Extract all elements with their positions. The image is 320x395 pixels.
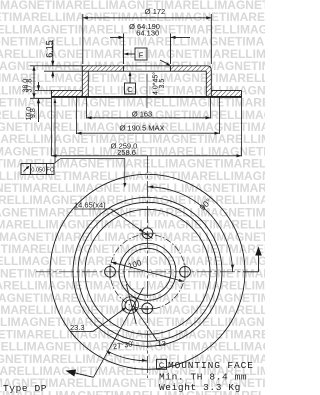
type label [3,383,47,394]
dimension Ø259 text [111,142,138,157]
dimension Ø163 line [87,116,211,119]
dimension Ø259 line [52,154,242,157]
section hat top plate left of bore (hatched) [82,66,123,71]
svg-text:C: C [127,85,133,94]
top view outer circle Ø259 [50,174,245,369]
dimension 100 line [111,262,183,282]
dimension Ø190.5 text [119,123,164,132]
svg-text:14.65(x4): 14.65(x4) [74,201,106,210]
dimension 90deg arc [148,185,235,272]
section band bottom extension left [30,97,52,99]
section hat top plate right of bore (hatched) [171,66,212,71]
svg-text:Min. TH 8.4 mm: Min. TH 8.4 mm [159,371,247,382]
dimension 38.0/37.8 line and arrows [30,66,44,99]
dimension 10.0/9.8 text [26,107,37,121]
runout leader to top view [54,159,126,188]
section bore edge right [170,66,172,71]
dimension 90deg text [197,196,213,212]
dimension Ø259 extension lines [52,97,242,156]
dimension Ø172 text [145,7,165,16]
section band bottom line [52,96,242,98]
svg-text:23.3: 23.3 [70,323,85,332]
section outline: hat top and walls [82,66,211,97]
svg-text:13: 13 [158,339,166,348]
dimension 6.15 extension lines [44,66,88,71]
section mounting face line [88,70,206,72]
svg-text:0.050: 0.050 [31,168,45,174]
pin hole cross line [126,284,136,324]
datum F leader [124,53,135,56]
dimension 6.15 text [44,40,54,58]
bolt hole E [180,264,191,280]
dimension Ø163 extension lines [87,97,211,118]
svg-text:Ø 163: Ø 163 [132,109,152,118]
top view circle braking surface inner [73,197,222,346]
dimension Ø190.5 extension lines [77,97,220,134]
weight note [159,382,241,393]
top view circle Ø190.5 [78,202,217,341]
bolt hole N [140,228,156,239]
datum F box [135,48,147,60]
section right braking band (hatched) [211,90,241,97]
section left hat wall (hatched) [82,66,88,97]
dimension Ø64 line tails [110,36,190,39]
Type DP view arrow [66,370,94,378]
top view vertical centerline [147,156,149,378]
runout leader from band to frame [54,99,57,164]
section hat inner wall right [205,71,207,97]
dimension 6.15 line and arrows [51,40,54,78]
top view hub pilot circle [119,243,176,300]
bolt hole W [105,264,116,280]
svg-text:Weight 3.3 Kg: Weight 3.3 Kg [159,382,241,393]
dimension Ø64 extension right [170,34,172,65]
min thickness note [159,371,247,382]
dimension Ø64 extension left [123,34,125,65]
section bore edge left [123,66,125,71]
svg-text:Ø 172: Ø 172 [145,7,165,16]
dimension Ø64 text [129,22,160,38]
label 13 leader [134,307,158,341]
label 23.3 text [70,323,93,332]
top view bolt circle Ø100 (dash-dot) [110,234,185,309]
datum C box [125,83,136,94]
dimension 10.0/9.8 extension [35,89,52,91]
top view bore circle Ø64 [124,248,171,295]
svg-text:F: F [139,50,144,59]
top view circle Ø172 [85,209,210,334]
locating pin hole Ø13 [122,297,139,314]
dimension Ø172 line [83,16,212,19]
section band top left [52,89,83,91]
svg-text:MOUNTING FACE: MOUNTING FACE [168,360,254,371]
svg-text:FC: FC [46,168,54,174]
section hat inner wall left [87,71,89,97]
dimension 27deg30 text [112,339,135,351]
bolt hole S [139,303,155,314]
section band top right [211,89,241,91]
mounting face note [157,359,254,371]
svg-text:C: C [159,361,165,370]
svg-text:258.6: 258.6 [117,148,136,157]
dimension 10.0/9.8 arrows [37,82,40,122]
svg-text:3.5: 3.5 [159,79,166,89]
datum C leader [129,72,132,84]
runout feature control frame [21,164,54,175]
rotation direction arrow [243,247,262,272]
dimension 100 text [127,258,143,271]
svg-text:37.8: 37.8 [27,79,34,93]
dimension Ø163 text [132,109,152,118]
svg-text:6.15: 6.15 [44,40,54,58]
svg-text:Type DP: Type DP [3,383,47,394]
chamfer leader [160,60,171,66]
section centerline [146,74,148,108]
dimension Ø172 extension right [210,14,212,64]
dimension Ø172 extension left [82,14,84,64]
label 13 text [158,339,166,348]
label 23.3 leader [93,307,126,331]
svg-text:Ø 190.5 MAX: Ø 190.5 MAX [119,123,164,132]
dimension 38.0/37.8 text [22,79,33,93]
svg-text:9.8: 9.8 [30,108,37,118]
dimension Ø190.5 line [77,132,220,135]
section left braking band (hatched) [52,90,83,97]
top view horizontal centerline [36,271,242,273]
section right hat wall (hatched) [206,66,211,97]
dimension 27deg30 arc [106,351,147,362]
section disc edge right [241,90,243,97]
svg-text:64.130: 64.130 [136,28,159,37]
chamfer note text [152,72,167,95]
section disc edge left [51,90,53,97]
label 14.65 leader [111,209,153,239]
label 14.65(x4) text [74,201,111,210]
pin hole radial line [94,288,144,378]
